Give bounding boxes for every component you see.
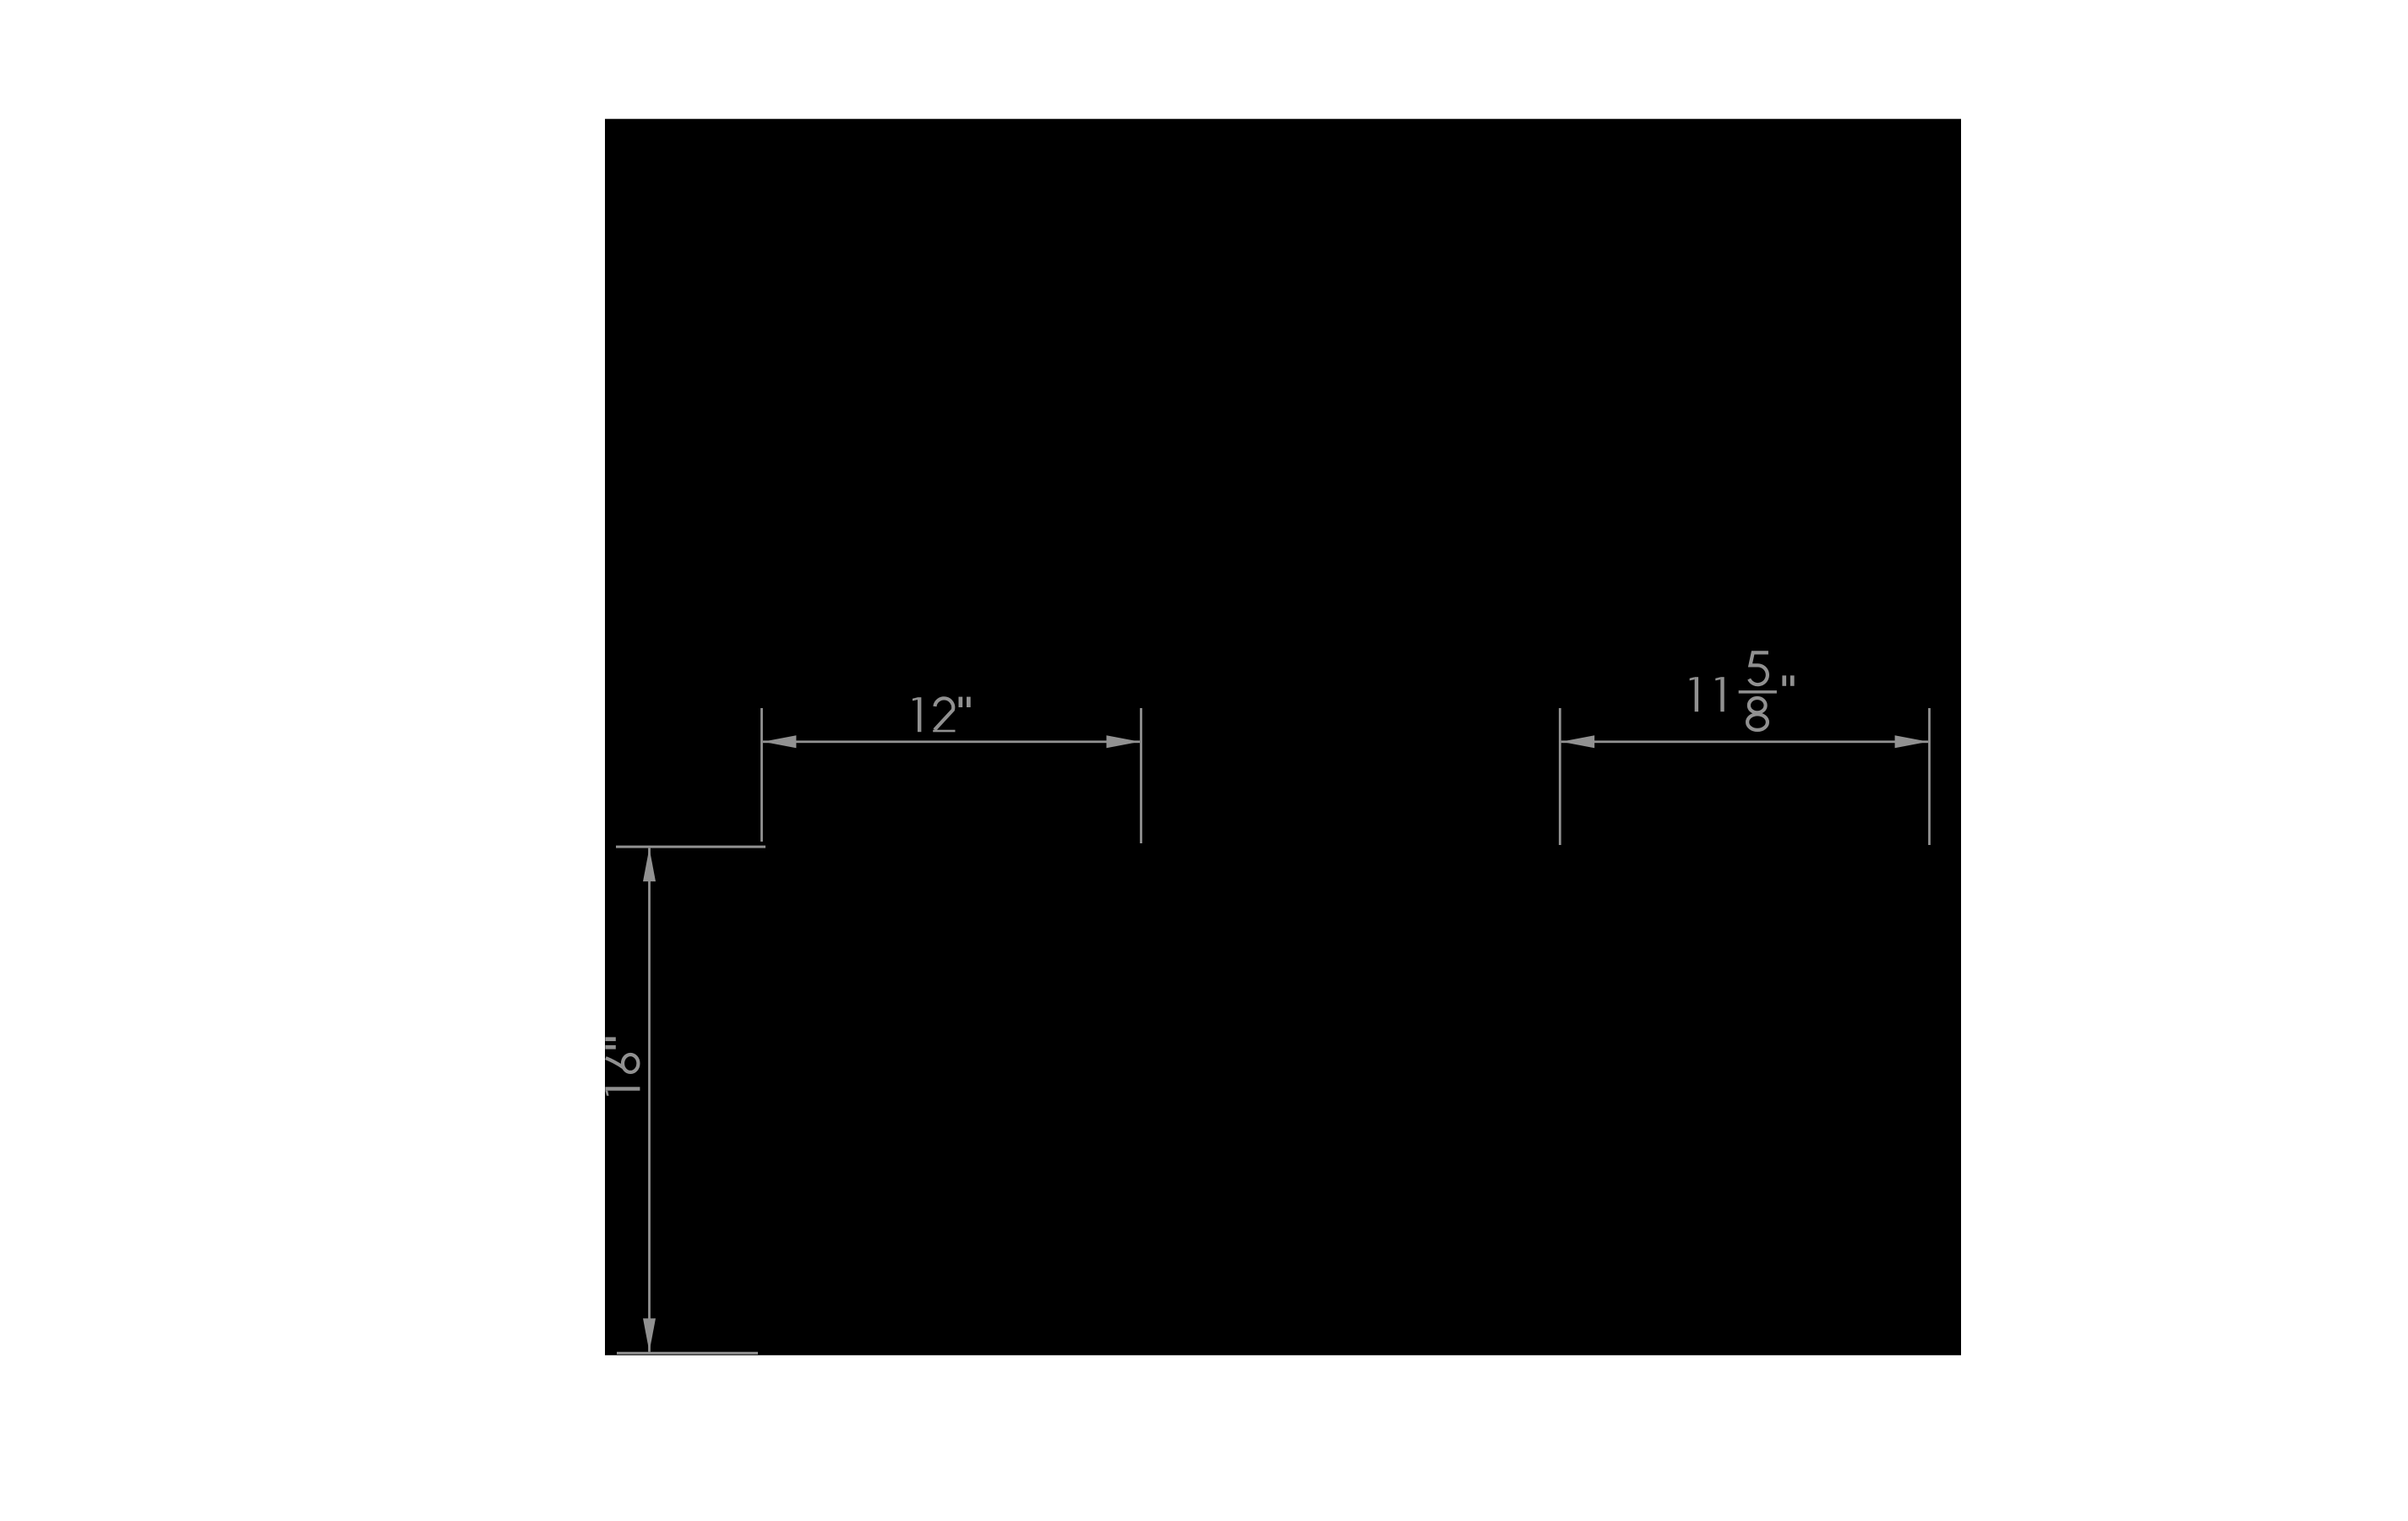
dim 12in: right extension line xyxy=(1140,708,1142,843)
dim 11 5/8in: right extension line xyxy=(1928,708,1931,845)
dim 12in: left arrowhead xyxy=(763,735,797,748)
dim 12in: right arrowhead xyxy=(1107,735,1141,748)
dim 12in: label digit 1 xyxy=(913,697,921,732)
dim 16in: bottom arrowhead xyxy=(643,1318,656,1352)
dim 11 5/8in: fraction bar xyxy=(1739,690,1777,694)
dim 16in: dimension line xyxy=(648,848,651,1352)
dim 16in: rotated label 16 with inch mark xyxy=(605,1037,640,1095)
dim 16in: top extension line xyxy=(616,846,765,848)
dim 16in: bottom extension line xyxy=(617,1352,758,1355)
dim 12in: label digit 2 xyxy=(933,698,955,732)
dim 11 5/8in: dimension line xyxy=(1561,740,1928,743)
dim 11 5/8in: left arrowhead xyxy=(1561,735,1595,748)
dim 12in: label inch mark xyxy=(959,697,971,707)
dim 11 5/8in: fraction denominator 8 xyxy=(1747,698,1768,730)
dim 11 5/8in: label first digit 1 xyxy=(1690,677,1698,711)
black panel silhouette xyxy=(605,119,1961,1355)
dim 16in: top arrowhead xyxy=(643,848,656,882)
dim 12in: dimension line xyxy=(763,740,1140,743)
dim 11 5/8in: inch mark xyxy=(1782,675,1794,685)
dim 11 5/8in: label second digit 1 xyxy=(1715,677,1724,711)
dim 11 5/8in: fraction numerator 5 xyxy=(1749,652,1768,684)
dim 11 5/8in: right arrowhead xyxy=(1895,735,1929,748)
dim 11 5/8in: left extension line xyxy=(1559,708,1561,845)
dim 12in: left extension line xyxy=(760,708,763,842)
